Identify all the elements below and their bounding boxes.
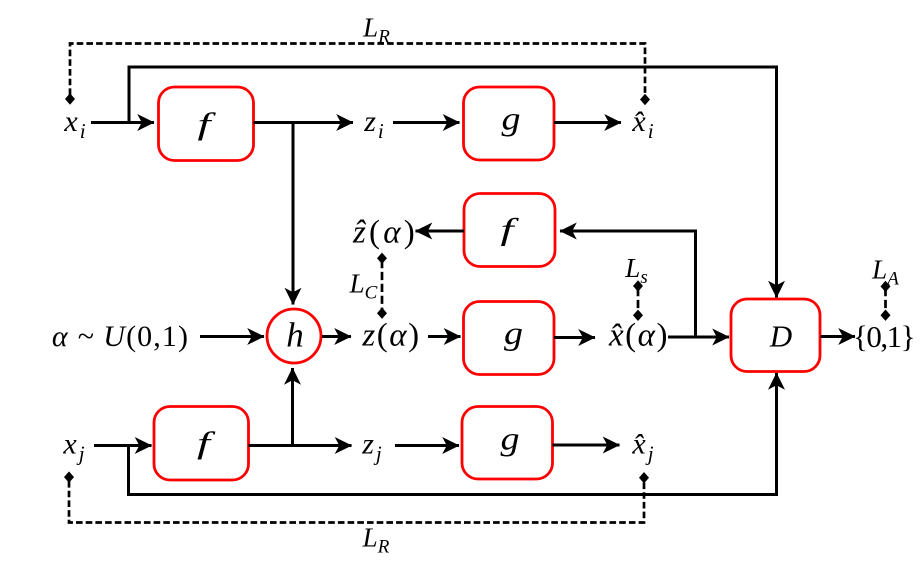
wire h to z_alpha [322, 335, 351, 338]
diamond endpoint at x_j [64, 471, 74, 482]
svg-text:x̂i: x̂i [631, 105, 655, 143]
dashed loss connector L_C (zhat_alpha to z_alpha) [381, 260, 384, 311]
wire x_i to encoder f1 [91, 121, 154, 124]
encoder f1 box [159, 87, 254, 161]
svg-text:α ~ U(0,1): α ~ U(0,1) [52, 320, 189, 353]
svg-text:g: g [504, 316, 523, 352]
wire z_j to decoder g3 [395, 444, 459, 447]
svg-text:LR: LR [362, 523, 390, 558]
wire z_i to decoder g1 [393, 121, 460, 124]
decoder g1 box [464, 87, 555, 160]
wire alpha to mixer h [200, 335, 264, 338]
diamond endpoint top L_s [633, 280, 643, 291]
svg-text:h: h [286, 316, 304, 355]
wire g2 to xhat_alpha [554, 336, 595, 339]
diamond endpoint at x_i [65, 93, 75, 104]
mixer h circle [267, 309, 321, 363]
diamond endpoint at zhat_alpha [377, 253, 387, 264]
diamond endpoint bottom L_A [881, 310, 891, 321]
diamond endpoint at xhat_j [639, 472, 649, 483]
discriminator D box [731, 299, 820, 372]
svg-text:g: g [501, 422, 520, 458]
wire z_alpha to decoder g2 [428, 335, 461, 338]
wire f3 branch up to mixer h [291, 368, 294, 446]
encoder f3 box [154, 407, 249, 481]
svg-text:ẑ(α): ẑ(α) [352, 215, 418, 251]
diamond endpoint bottom L_s [633, 310, 643, 321]
wire g3 to xhat_j [553, 444, 620, 447]
svg-text:x̂j: x̂j [631, 428, 655, 466]
diamond endpoint top L_A [881, 281, 891, 292]
svg-text:{0,1}: {0,1} [853, 319, 914, 354]
decoder g3 box [462, 407, 553, 480]
wire x_j to encoder f3 [94, 444, 152, 447]
svg-text:xi: xi [63, 105, 87, 143]
decoder g2 box [464, 302, 555, 375]
wire D to output {0,1} [821, 335, 856, 338]
svg-text:LR: LR [362, 13, 390, 48]
wire f1 branch down to mixer h [292, 123, 295, 305]
dashed loss connector L_R bottom (x_j to xhat_j) [69, 481, 644, 523]
svg-text:zj: zj [361, 428, 384, 466]
dashed loss connector L_A (to output) [884, 288, 887, 313]
wire top feed line x_i branch to discriminator D (up, right, down) [129, 67, 777, 298]
wire g1 to xhat_i [554, 121, 621, 124]
diamond endpoint at xhat_i [640, 94, 650, 105]
dashed loss connector L_s (to xhat_alpha) [637, 288, 640, 313]
wire bottom feed line x_j branch to discriminator D (down, right, up) [129, 373, 777, 495]
svg-text:g: g [502, 102, 521, 138]
svg-text:D: D [769, 319, 792, 354]
wire f2 to zhat_alpha [416, 230, 465, 233]
encoder f2 box [464, 194, 555, 267]
svg-text:z(α): z(α) [361, 318, 420, 354]
wire f1 to z_i [254, 121, 354, 124]
wire xhat_alpha to discriminator D [668, 336, 729, 339]
svg-text:xj: xj [62, 428, 86, 466]
diamond endpoint at z_alpha [377, 308, 387, 319]
wire f3 to z_j [249, 444, 352, 447]
svg-text:LC: LC [349, 269, 378, 304]
wire xhat_alpha branch up into encoder f2 [560, 231, 696, 337]
svg-text:x̂(α): x̂(α) [608, 318, 669, 354]
dashed loss connector L_R top (x_i to xhat_i) [70, 44, 645, 96]
svg-text:zi: zi [363, 105, 386, 143]
